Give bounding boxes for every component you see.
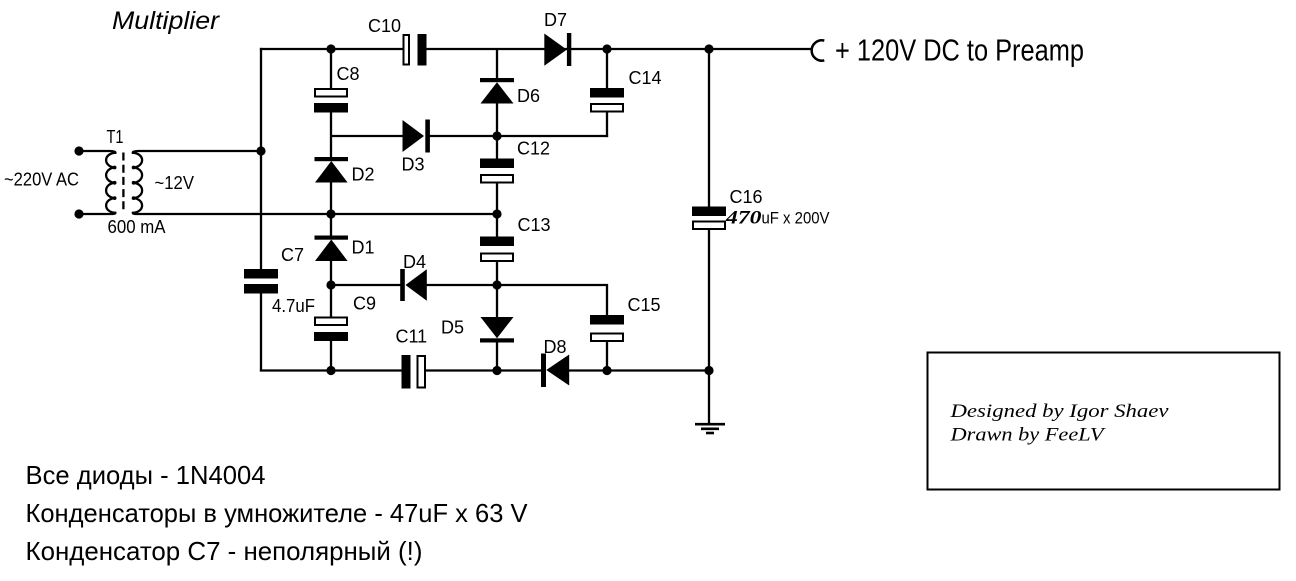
svg-text:C14: C14: [629, 68, 662, 88]
wire C13 to D5: [496, 262, 498, 318]
wire top rail right: [427, 48, 812, 50]
svg-text:C15: C15: [628, 295, 661, 315]
capacitor C14: [590, 88, 624, 112]
wire C15 to bottom rail: [606, 342, 608, 372]
diode D5: [480, 317, 514, 343]
ground: [695, 424, 725, 433]
capacitor C7: [244, 269, 278, 294]
diode D6: [480, 78, 514, 104]
node x497 y285: [492, 280, 501, 289]
wire bottom rail c: [569, 369, 710, 371]
wire C14 down to y136: [606, 113, 608, 138]
svg-text:C8: C8: [337, 64, 360, 84]
svg-text:C12: C12: [517, 139, 550, 159]
svg-text:C9: C9: [353, 294, 376, 314]
node x497 y136: [492, 131, 501, 140]
svg-text:Конденсаторы в умножителе - 47: Конденсаторы в умножителе - 47uF x 63 V: [26, 498, 529, 528]
wire y136 left: [331, 135, 403, 137]
wire vertical x261 upper: [260, 48, 262, 270]
svg-text:D5: D5: [441, 318, 464, 338]
node bottom rail x497: [492, 366, 501, 375]
wire x709 top rail to C16: [708, 49, 710, 207]
wire x497 top rail to D6: [496, 49, 498, 79]
transformer T1 secondary winding: [132, 151, 142, 214]
svg-text:470: 470: [725, 208, 762, 229]
wire D5 to bottom rail: [496, 343, 498, 372]
svg-text:C11: C11: [396, 327, 428, 347]
transformer T1 core: [122, 153, 124, 213]
svg-text:D7: D7: [544, 10, 567, 30]
svg-text:D2: D2: [352, 165, 375, 185]
designer box: [928, 353, 1280, 490]
wire secondary bottom rail y214: [138, 213, 497, 215]
output connector arc: [812, 40, 825, 60]
svg-text:C13: C13: [518, 215, 551, 235]
node bottom rail x331: [326, 366, 335, 375]
transformer T1 primary winding: [79, 151, 117, 214]
node x331 y285: [326, 280, 335, 289]
svg-text:~220V AC: ~220V AC: [4, 170, 79, 190]
svg-text:Designed by Igor Shaev: Designed by Igor Shaev: [949, 401, 1169, 422]
node x497 y214: [492, 209, 501, 218]
svg-text:4.7uF: 4.7uF: [272, 296, 315, 316]
svg-text:Конденсатор C7 - неполярный (!: Конденсатор C7 - неполярный (!): [26, 536, 423, 566]
wire C8 to D2: [330, 113, 332, 158]
capacitor C11: [402, 355, 426, 389]
node primary top terminal: [74, 146, 83, 155]
node top rail x709: [704, 44, 713, 53]
capacitor C13: [480, 237, 514, 262]
svg-text:C7: C7: [281, 245, 304, 265]
diode D1: [315, 236, 349, 262]
diode D8: [541, 354, 569, 388]
capacitor C12: [480, 159, 514, 183]
wire x331 top rail to C8: [330, 49, 332, 89]
svg-text:D6: D6: [517, 86, 540, 106]
capacitor C8: [314, 89, 348, 113]
svg-text:D8: D8: [544, 337, 567, 357]
wire C12 to C13: [496, 183, 498, 237]
wire bottom rail b: [426, 369, 542, 371]
svg-text:T1: T1: [107, 127, 124, 147]
diode D2: [315, 157, 349, 183]
capacitor C10: [404, 34, 427, 66]
node at x261 y151: [256, 146, 265, 155]
svg-text:C10: C10: [368, 16, 401, 36]
svg-text:Drawn by FeeLV: Drawn by FeeLV: [949, 425, 1106, 446]
wire top rail left: [260, 48, 403, 50]
node bottom rail x709: [704, 366, 713, 375]
node x331 y214: [326, 209, 335, 218]
node top rail x331: [326, 44, 335, 53]
capacitor C9: [314, 318, 348, 342]
wire y285 right: [426, 285, 607, 316]
svg-text:600 mA: 600 mA: [108, 217, 166, 237]
diode D4: [400, 269, 427, 301]
svg-text:Multiplier: Multiplier: [112, 7, 221, 35]
wire D1 to C9: [330, 261, 332, 317]
svg-text:D3: D3: [402, 155, 425, 175]
wire D2 to D1: [330, 182, 332, 236]
wire y136 right: [430, 135, 609, 137]
svg-text:+ 120V DC to Preamp: + 120V DC to Preamp: [835, 33, 1084, 68]
wire vertical x261 lower: [260, 293, 262, 372]
diode D7: [544, 33, 571, 66]
wire x607 top rail to C14: [606, 49, 608, 89]
svg-text:~12V: ~12V: [155, 173, 195, 193]
capacitor C15: [590, 315, 624, 341]
wire D6 to C12: [496, 103, 498, 159]
svg-text:D4: D4: [403, 252, 426, 272]
wire x709 C16 to ground: [708, 230, 710, 424]
svg-text:D1: D1: [352, 238, 375, 258]
diode D3: [403, 120, 430, 153]
svg-text:uF x 200V: uF x 200V: [762, 209, 831, 228]
node bottom rail x607: [602, 366, 611, 375]
wire C9 to bottom rail: [330, 341, 332, 372]
wire bottom rail a: [260, 369, 402, 371]
wire secondary top to node: [138, 150, 261, 152]
node primary bottom terminal: [74, 209, 83, 218]
wire y285 left: [331, 284, 401, 286]
capacitor C16: [692, 207, 726, 230]
node top rail x607: [602, 44, 611, 53]
svg-text:Все диоды - 1N4004: Все диоды - 1N4004: [26, 460, 266, 490]
svg-text:C16: C16: [730, 187, 763, 207]
